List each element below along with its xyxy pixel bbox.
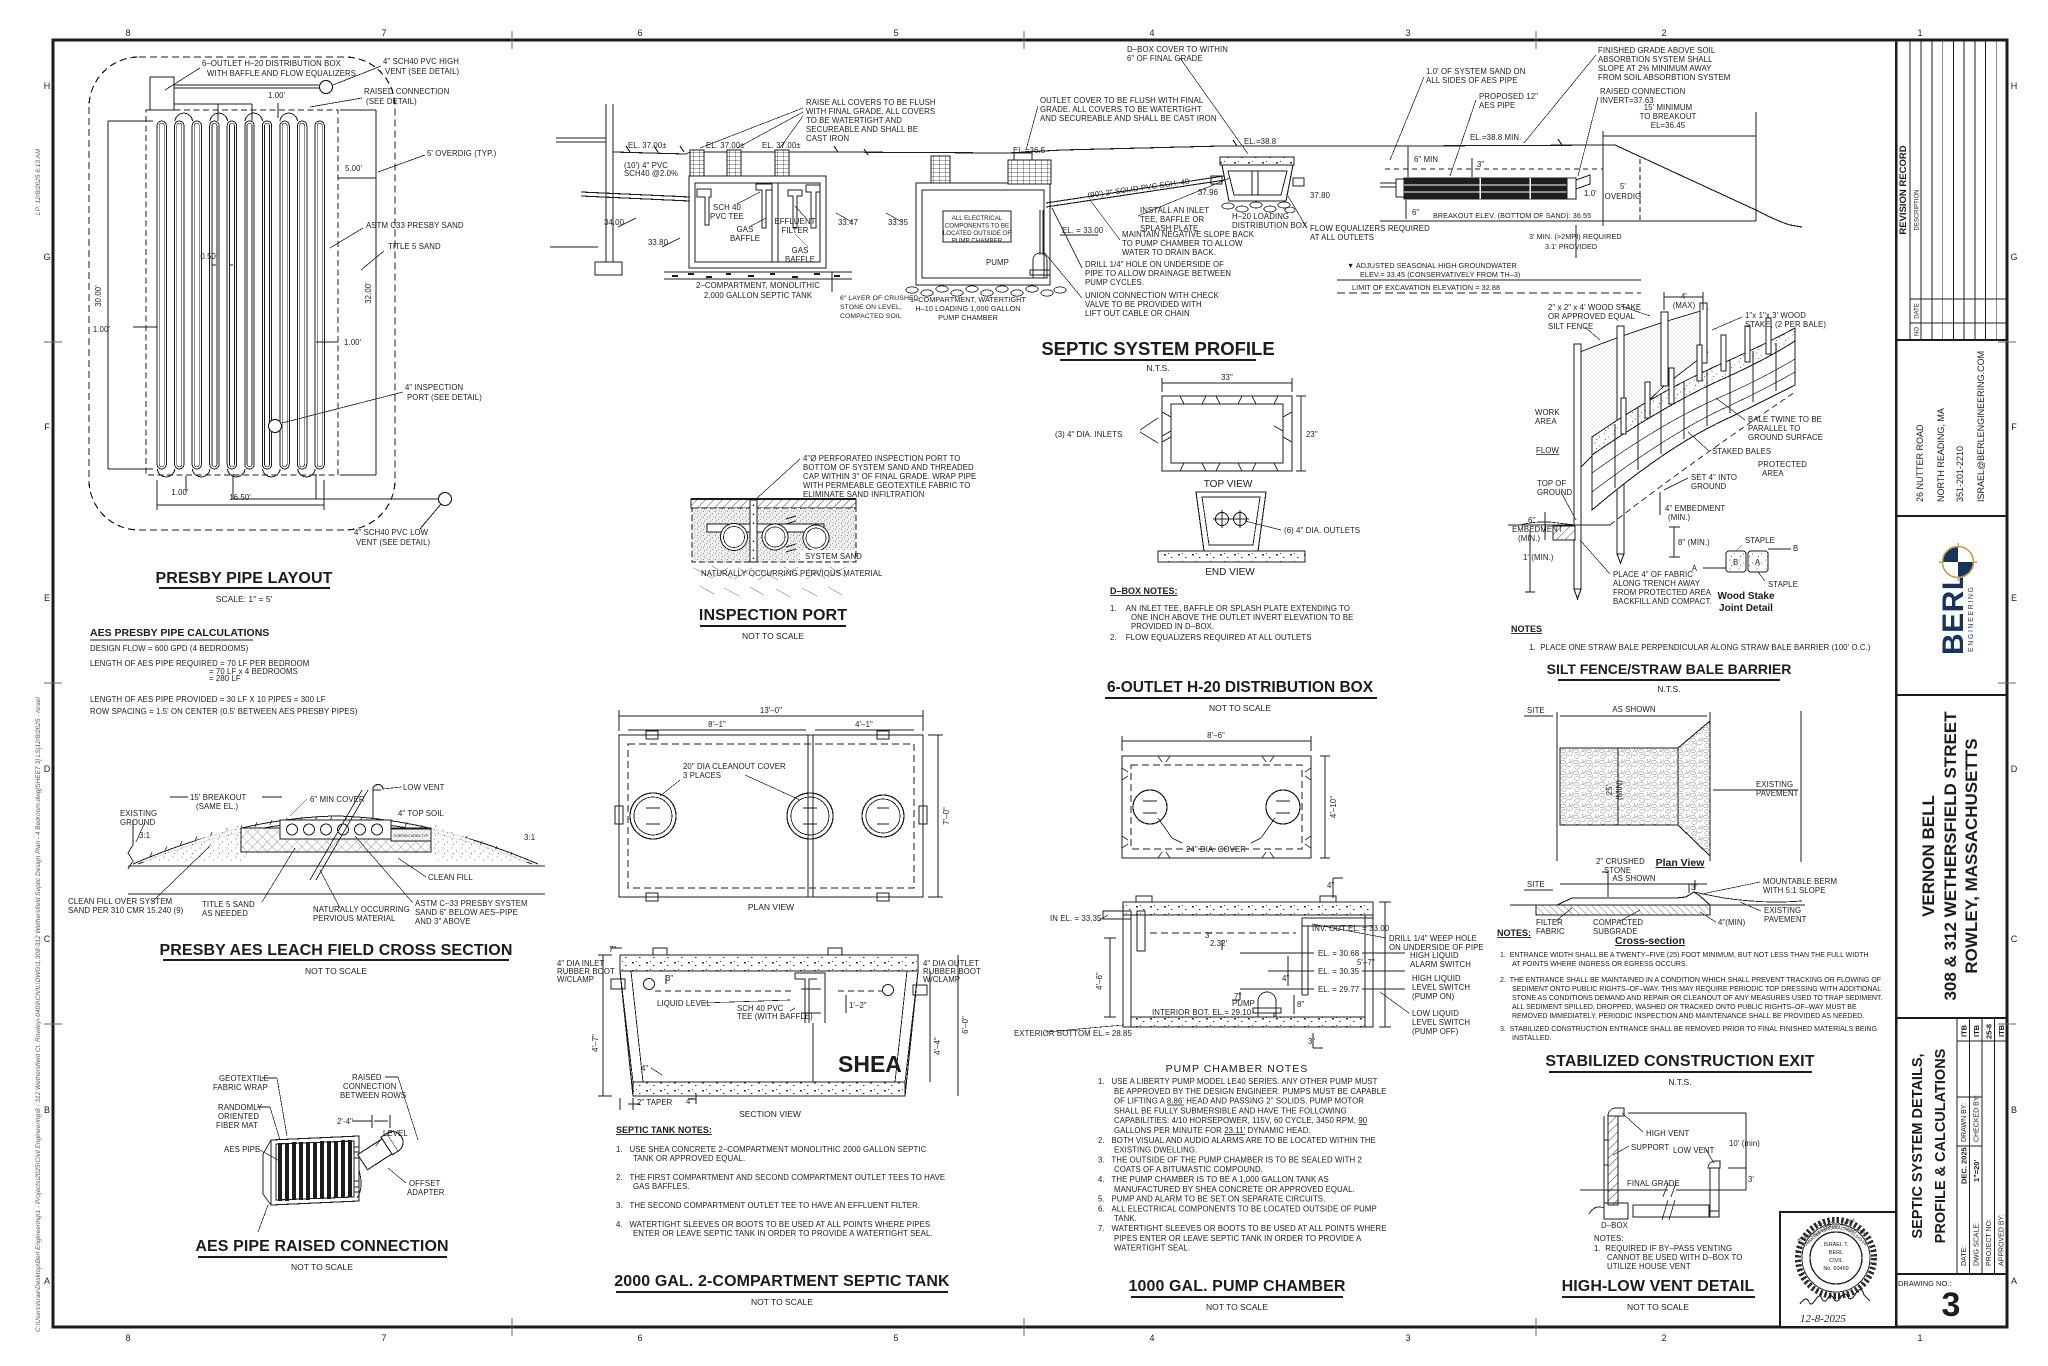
title block: [1896, 40, 2007, 1327]
svg-text:15' BREAKOUT: 15' BREAKOUT: [190, 793, 247, 802]
svg-text:F: F: [44, 422, 50, 432]
distribution box plan (8'-6" x 4'-10"): [1122, 756, 1311, 858]
svg-text:24" DIA. COVER: 24" DIA. COVER: [1186, 845, 1246, 854]
overdig hatched box: [391, 829, 431, 841]
svg-text:IN EL. = 33.35: IN EL. = 33.35: [1050, 914, 1102, 923]
svg-text:33.80: 33.80: [648, 238, 669, 247]
svg-text:EL. = 29.77: EL. = 29.77: [1318, 985, 1359, 994]
svg-text:No. 60469: No. 60469: [1823, 1266, 1848, 1272]
svg-text:4": 4": [686, 1097, 693, 1106]
svg-text:PIPE TO ALLOW DRAINAGE BETWEEN: PIPE TO ALLOW DRAINAGE BETWEEN: [1085, 269, 1231, 278]
svg-text:SEDIMENT ONTO PUBLIC RIGHTS–OF: SEDIMENT ONTO PUBLIC RIGHTS–OF–WAY. THIS…: [1512, 986, 1881, 993]
elbow cap: [1608, 1108, 1624, 1116]
svg-text:PRESBY AES LEACH FIELD CROSS S: PRESBY AES LEACH FIELD CROSS SECTION: [160, 942, 513, 959]
svg-text:5.00': 5.00': [345, 164, 363, 173]
svg-text:1000 GAL. PUMP CHAMBER: 1000 GAL. PUMP CHAMBER: [1128, 1278, 1345, 1295]
svg-text:CHECKED BY:: CHECKED BY:: [1974, 1095, 1981, 1142]
svg-text:SUPPORT: SUPPORT: [1631, 1143, 1669, 1152]
svg-text:SECUREABLE AND SHALL BE: SECUREABLE AND SHALL BE: [806, 125, 918, 134]
svg-text:LP: 12/8/2025 6:13 AM: LP: 12/8/2025 6:13 AM: [35, 148, 42, 215]
svg-text:AES PIPE: AES PIPE: [1479, 101, 1515, 110]
svg-text:STONE: STONE: [1604, 866, 1631, 875]
svg-text:5: 5: [893, 28, 898, 38]
svg-text:E: E: [2011, 593, 2017, 603]
svg-text:STAPLE: STAPLE: [1745, 536, 1775, 545]
svg-text:VERNON BELL: VERNON BELL: [1919, 795, 1938, 917]
svg-text:4"(MIN): 4"(MIN): [1718, 918, 1746, 927]
overdig dashed boundary: [89, 57, 395, 530]
svg-text:5' OVERDIG (TYP.): 5' OVERDIG (TYP.): [427, 149, 497, 158]
svg-text:37.96: 37.96: [1198, 188, 1218, 197]
svg-text:6" OF FINAL GRADE: 6" OF FINAL GRADE: [1127, 54, 1203, 63]
low vent: [1708, 1161, 1720, 1168]
svg-text:SITE: SITE: [1527, 880, 1545, 889]
svg-text:REMOVED IMMEDIATELY. PERI: REMOVED IMMEDIATELY. PERIODIC INSPECTION…: [1512, 1013, 1864, 1020]
svg-text:STAKE, (2 PER BALE): STAKE, (2 PER BALE): [1745, 320, 1826, 329]
svg-text:MANUFACTURED BY SHEA CONCRETE: MANUFACTURED BY SHEA CONCRETE OR APPROVE…: [1114, 1185, 1355, 1194]
outlet tee and effluent filter: [806, 185, 820, 228]
svg-text:D–BOX NOTES:: D–BOX NOTES:: [1110, 586, 1178, 596]
svg-text:C: C: [2011, 934, 2018, 944]
engineer address block: [1915, 351, 1986, 502]
svg-text:W/CLAMP: W/CLAMP: [923, 975, 960, 984]
svg-text:4" SCH40 PVC LOW: 4" SCH40 PVC LOW: [354, 528, 429, 537]
svg-text:FABRIC: FABRIC: [1536, 927, 1565, 936]
SEPTIC SYSTEM PROFILE: [550, 104, 1802, 275]
svg-text:EXISTING: EXISTING: [1756, 780, 1793, 789]
svg-text:AES PRESBY PIPE CALCULATIONS: AES PRESBY PIPE CALCULATIONS: [90, 627, 269, 639]
svg-text:8" (MIN.): 8" (MIN.): [1678, 538, 1710, 547]
svg-text:PUMP CHAMBER: PUMP CHAMBER: [952, 238, 1003, 245]
silt fence dims: [1525, 292, 1703, 592]
svg-text:15' MINIMUM: 15' MINIMUM: [1644, 103, 1693, 112]
svg-text:ENTER OR LEAVE SEPTIC TANK IN: ENTER OR LEAVE SEPTIC TANK IN ORDER TO P…: [633, 1229, 933, 1238]
section view dims/labels: [598, 948, 958, 1110]
svg-text:LOW LIQUID: LOW LIQUID: [1412, 1009, 1459, 1018]
svg-text:VALVE TO BE PROVIDED WITH: VALVE TO BE PROVIDED WITH: [1085, 300, 1202, 309]
svg-text:6: 6: [637, 28, 642, 38]
svg-text:PERVIOUS MATERIAL: PERVIOUS MATERIAL: [313, 914, 396, 923]
svg-text:BALE TWINE TO BE: BALE TWINE TO BE: [1748, 415, 1822, 424]
outlet knockout notches top/bottom: [1180, 396, 1278, 404]
AES pipe bed (profile): [1380, 159, 1756, 221]
svg-text:5: 5: [893, 1333, 898, 1343]
svg-text:ELEV.= 33.45 (CONSERVATIVELY F: ELEV.= 33.45 (CONSERVATIVELY FROM TH–3): [1360, 270, 1520, 279]
svg-text:TEE (WITH BAFFLE): TEE (WITH BAFFLE): [737, 1012, 813, 1021]
svg-text:5'–7": 5'–7": [1357, 958, 1375, 967]
svg-text:PIPES ENTER OR LEAVE SEPTIC TA: PIPES ENTER OR LEAVE SEPTIC TANK IN ORDE…: [1114, 1234, 1362, 1243]
svg-text:PUMP CYCLES.: PUMP CYCLES.: [1085, 278, 1144, 287]
raised connection labels: [213, 1073, 445, 1197]
svg-text:DEC. 2025: DEC. 2025: [1960, 1147, 1969, 1184]
svg-text:NOT TO SCALE: NOT TO SCALE: [305, 966, 367, 976]
surface hatch ticks: [150, 816, 512, 857]
svg-text:FLOW: FLOW: [1536, 446, 1559, 455]
1,000 gallon pump chamber (profile): [906, 153, 1066, 296]
svg-text:3:1: 3:1: [524, 833, 535, 842]
svg-text:CAST IRON: CAST IRON: [806, 134, 849, 143]
svg-text:WATERTIGHT SEAL.: WATERTIGHT SEAL.: [1114, 1244, 1190, 1253]
svg-text:EL. = 30.35: EL. = 30.35: [1318, 967, 1360, 976]
svg-text:3': 3': [1691, 883, 1697, 892]
svg-text:B: B: [1733, 558, 1738, 567]
svg-text:308 & 312 WETHERSFIELD STREET: 308 & 312 WETHERSFIELD STREET: [1941, 711, 1960, 1001]
HIGH-LOW VENT DETAIL: [1580, 1108, 1746, 1220]
svg-text:CAPABILITIES: 4/10 HORSEPOWER,: CAPABILITIES: 4/10 HORSEPOWER, 115V, 60 …: [1114, 1116, 1368, 1125]
svg-text:DESCRIPTION: DESCRIPTION: [1915, 189, 1921, 230]
svg-text:PAVEMENT: PAVEMENT: [1764, 915, 1807, 924]
AES PIPE RAISED CONNECTION: [263, 1128, 407, 1205]
svg-text:4. WATERTIGHT SLEEVES OR BOO: 4. WATERTIGHT SLEEVES OR BOOTS TO BE USE…: [616, 1220, 930, 1229]
wood stake joint detail: [1726, 551, 1768, 572]
svg-text:1–COMPARTMENT, WATERTIGHT: 1–COMPARTMENT, WATERTIGHT: [910, 295, 1026, 304]
svg-text:SYSTEM SAND: SYSTEM SAND: [805, 552, 862, 561]
svg-text:A: A: [2011, 1276, 2017, 1286]
raise covers note: [806, 98, 936, 143]
svg-text:7": 7": [609, 945, 616, 954]
svg-text:(MIN.): (MIN.): [1518, 534, 1541, 543]
svg-text:SHALL BE FULLY SUBMERSIBLE AND: SHALL BE FULLY SUBMERSIBLE AND HAVE THE …: [1114, 1106, 1347, 1115]
system sand dashed boundary: [146, 110, 338, 475]
silt fence fabric mesh: [1580, 309, 1708, 468]
svg-text:16.50': 16.50': [229, 493, 251, 502]
svg-text:6. ALL ELECTRICAL COMPONENTS: 6. ALL ELECTRICAL COMPONENTS TO BE LOCAT…: [1098, 1204, 1377, 1213]
svg-text:3': 3': [1748, 1175, 1754, 1184]
svg-text:H: H: [44, 81, 51, 91]
svg-text:23": 23": [1306, 430, 1318, 439]
svg-text:3. STABILIZED CONSTRUCTION EN: 3. STABILIZED CONSTRUCTION ENTRANCE SHAL…: [1500, 1026, 1877, 1033]
svg-text:FINISHED GRADE ABOVE SOIL: FINISHED GRADE ABOVE SOIL: [1598, 46, 1716, 55]
svg-text:A: A: [1755, 558, 1761, 567]
svg-text:C: C: [44, 934, 51, 944]
liquid line: [1150, 932, 1296, 934]
svg-text:RANDOMLY: RANDOMLY: [218, 1103, 263, 1112]
svg-text:INSPECTION PORT: INSPECTION PORT: [699, 607, 847, 624]
dim to low vent: [1628, 1112, 1746, 1114]
svg-text:1.00': 1.00': [268, 91, 286, 100]
svg-text:AND 3" ABOVE: AND 3" ABOVE: [415, 917, 471, 926]
svg-text:OF LIFTING A 8.86' HEAD AND PA: OF LIFTING A 8.86' HEAD AND PASSING 2" S…: [1114, 1097, 1364, 1106]
sheet data table: [1957, 1018, 2007, 1274]
svg-text:4"Ø PERFORATED INSPECTION PORT: 4"Ø PERFORATED INSPECTION PORT TO: [803, 454, 960, 463]
svg-text:DRILL 1/4" HOLE ON UNDERSIDE O: DRILL 1/4" HOLE ON UNDERSIDE OF: [1085, 260, 1224, 269]
svg-text:EL. = 30.68: EL. = 30.68: [1318, 949, 1359, 958]
svg-text:8: 8: [125, 1333, 130, 1343]
svg-text:PRESBY PIPE LAYOUT: PRESBY PIPE LAYOUT: [156, 570, 333, 587]
stone under chamber: [906, 286, 1066, 296]
svg-text:EL.=38.8: EL.=38.8: [1244, 137, 1276, 146]
svg-text:AT ALL OUTLETS: AT ALL OUTLETS: [1310, 233, 1374, 242]
svg-text:A: A: [44, 1276, 50, 1286]
fence post 4: [1700, 303, 1707, 363]
svg-text:GAS: GAS: [792, 246, 809, 255]
inlet pipe and tee: [1103, 911, 1131, 919]
bale stakes: [1621, 318, 1771, 434]
svg-text:ASTM C33 PRESBY SAND: ASTM C33 PRESBY SAND: [366, 221, 464, 230]
svg-text:OFFSET: OFFSET: [409, 1179, 440, 1188]
high vent riser: [1608, 1116, 1618, 1205]
svg-text:3: 3: [1405, 28, 1410, 38]
svg-text:4: 4: [1149, 1333, 1154, 1343]
svg-text:33.35: 33.35: [888, 218, 909, 227]
svg-text:25': 25': [1605, 784, 1614, 795]
building sewer pipe: [581, 192, 690, 197]
tank shell: [620, 955, 918, 1096]
svg-text:EMBEDMENT: EMBEDMENT: [1512, 525, 1563, 534]
svg-text:3: 3: [1942, 1286, 1961, 1324]
svg-text:(SAME EL.): (SAME EL.): [196, 802, 238, 811]
professional engineer seal: [1796, 1217, 1874, 1296]
svg-text:BERL: BERL: [1829, 1250, 1843, 1256]
layout dimensions: [108, 103, 376, 510]
crushed stone base under tank: [664, 271, 852, 273]
svg-text:CLEAN FILL OVER SYSTEM: CLEAN FILL OVER SYSTEM: [68, 897, 172, 906]
svg-text:FLOW EQUALIZERS REQUIRED: FLOW EQUALIZERS REQUIRED: [1310, 224, 1430, 233]
grade hatch ticks: [626, 139, 1562, 155]
inspection port slash: [310, 790, 362, 880]
BERL Engineering logo: [1937, 543, 1977, 655]
svg-text:2,000 GALLON SEPTIC TANK: 2,000 GALLON SEPTIC TANK: [704, 291, 813, 300]
d-box labels: [1040, 45, 1430, 318]
svg-text:WATER TO DRAIN BACK.: WATER TO DRAIN BACK.: [1122, 248, 1216, 257]
svg-text:SEPTIC SYSTEM DETAILS,: SEPTIC SYSTEM DETAILS,: [1910, 1053, 1926, 1238]
svg-text:30.00': 30.00': [94, 285, 103, 307]
svg-text:Wood Stake: Wood Stake: [1717, 591, 1774, 602]
svg-text:CIVIL: CIVIL: [1829, 1258, 1843, 1264]
svg-text:HIGH VENT: HIGH VENT: [1646, 1129, 1689, 1138]
svg-text:ITB: ITB: [1997, 1024, 2006, 1037]
svg-text:END VIEW: END VIEW: [1205, 567, 1255, 578]
svg-text:WITH 5:1 SLOPE: WITH 5:1 SLOPE: [1763, 886, 1826, 895]
INSPECTION PORT detail: [691, 499, 856, 597]
svg-text:6" LAYER OF CRUSHED: 6" LAYER OF CRUSHED: [840, 295, 919, 302]
svg-text:BETWEEN ROWS: BETWEEN ROWS: [340, 1091, 406, 1100]
svg-text:LOW VENT: LOW VENT: [403, 783, 445, 792]
inlet boot: [611, 979, 625, 989]
svg-text:EXISTING: EXISTING: [120, 809, 157, 818]
svg-text:SAND 6" BELOW AES–PIPE: SAND 6" BELOW AES–PIPE: [415, 908, 518, 917]
ground baseline: [128, 865, 545, 867]
D-box (profile): [1211, 157, 1304, 213]
svg-text:OR APPROVED EQUAL: OR APPROVED EQUAL: [1548, 312, 1636, 321]
1000 GAL PUMP CHAMBER - SECTION: [1103, 896, 1405, 1027]
svg-text:INTERIOR BOT. EL.= 29.10: INTERIOR BOT. EL.= 29.10: [1152, 1008, 1252, 1017]
geotextile tick marks: [786, 516, 796, 552]
svg-text:0.50': 0.50': [200, 252, 218, 261]
svg-text:TITLE 5 SAND: TITLE 5 SAND: [202, 900, 255, 909]
svg-text:TO BREAKOUT: TO BREAKOUT: [1640, 112, 1697, 121]
svg-text:EL=36.45: EL=36.45: [1651, 121, 1686, 130]
engineer signature: [1800, 1289, 1870, 1304]
svg-text:PVC TEE: PVC TEE: [710, 212, 744, 221]
pressure line to d-box: [1046, 176, 1225, 207]
svg-text:PUMP CHAMBER NOTES: PUMP CHAMBER NOTES: [1166, 1063, 1309, 1075]
svg-text:EL.=36.5: EL.=36.5: [1013, 146, 1046, 155]
svg-text:3": 3": [666, 974, 673, 983]
svg-text:H–10 LOADING 1,000 GALLON: H–10 LOADING 1,000 GALLON: [915, 304, 1020, 313]
svg-text:C:\Users\israe\Desktop\Berl En: C:\Users\israe\Desktop\Berl Engineering\…: [35, 697, 42, 1332]
svg-text:TANK OR APPROVED EQUAL.: TANK OR APPROVED EQUAL.: [633, 1154, 745, 1163]
svg-text:G: G: [2010, 252, 2017, 262]
revision record table: [1910, 40, 2007, 340]
svg-text:SEPTIC SYSTEM PROFILE: SEPTIC SYSTEM PROFILE: [1041, 338, 1274, 359]
svg-text:MAINTAIN NEGATIVE SLOPE BACK: MAINTAIN NEGATIVE SLOPE BACK: [1122, 230, 1255, 239]
svg-text:CONNECTION: CONNECTION: [343, 1082, 396, 1091]
svg-text:7: 7: [381, 1333, 386, 1343]
svg-text:3": 3": [1477, 160, 1484, 169]
svg-text:TANK.: TANK.: [1114, 1214, 1137, 1223]
clean fill stipple areas: [140, 824, 250, 862]
svg-text:PORT (SEE DETAIL): PORT (SEE DETAIL): [407, 393, 482, 402]
svg-text:Joint Detail: Joint Detail: [1719, 603, 1773, 614]
svg-text:GROUND SURFACE: GROUND SURFACE: [1748, 433, 1823, 442]
svg-text:APPROVED BY:: APPROVED BY:: [1999, 1214, 2006, 1266]
svg-text:(MIN.): (MIN.): [1668, 513, 1691, 522]
svg-text:4'–1": 4'–1": [855, 720, 873, 729]
svg-text:MOUNTABLE BERM: MOUNTABLE BERM: [1763, 877, 1837, 886]
svg-text:COMPONENTS TO BE: COMPONENTS TO BE: [945, 223, 1009, 230]
svg-text:ELIMINATE SAND INFILTRATION: ELIMINATE SAND INFILTRATION: [803, 490, 924, 499]
svg-text:ISRAEL@BERLENGINEERING.COM: ISRAEL@BERLENGINEERING.COM: [1976, 351, 1986, 502]
svg-text:EL. 37.00±: EL. 37.00±: [762, 141, 801, 150]
svg-text:ASTM C–33 PRESBY SYSTEM: ASTM C–33 PRESBY SYSTEM: [415, 899, 528, 908]
low vent run: [232, 474, 234, 499]
straw bale chain: [1592, 341, 1795, 510]
svg-text:SITE: SITE: [1527, 706, 1545, 715]
finished grade line: [613, 145, 1615, 154]
svg-text:1.00': 1.00': [171, 488, 189, 497]
svg-text:ALL ELECTRICAL: ALL ELECTRICAL: [952, 215, 1003, 222]
AES bed dims and labels: [1412, 133, 1641, 251]
svg-text:PROJECT NO:: PROJECT NO:: [1986, 1219, 1993, 1266]
svg-text:6" MIN: 6" MIN: [1414, 155, 1438, 164]
svg-text:N.T.S.: N.T.S.: [1668, 1077, 1691, 1087]
svg-text:COMPACTED SOIL: COMPACTED SOIL: [840, 313, 902, 320]
svg-text:4': 4': [1681, 292, 1687, 301]
lateral pipe: [707, 524, 824, 532]
svg-text:CANNOT BE USED WITH D–BOX TO: CANNOT BE USED WITH D–BOX TO: [1607, 1253, 1742, 1262]
svg-text:(SEE DETAIL): (SEE DETAIL): [366, 97, 417, 106]
svg-text:TO BE WATERTIGHT AND: TO BE WATERTIGHT AND: [806, 116, 902, 125]
svg-text:2'-4": 2'-4": [337, 1117, 353, 1126]
inspection port riser: [750, 500, 757, 562]
svg-text:(MAX): (MAX): [1673, 301, 1696, 310]
svg-text:GROUND: GROUND: [1691, 482, 1727, 491]
svg-text:B: B: [44, 1105, 50, 1115]
svg-text:4" TOP SOIL: 4" TOP SOIL: [398, 809, 444, 818]
svg-text:351-201-2210: 351-201-2210: [1955, 446, 1965, 502]
crenellated edge near adapter: [354, 1141, 359, 1197]
svg-text:3: 3: [1405, 1333, 1410, 1343]
svg-text:6": 6": [1412, 208, 1419, 217]
svg-text:SHEA: SHEA: [838, 1051, 902, 1077]
svg-text:Plan View: Plan View: [1656, 857, 1706, 869]
lateral pipe: [1633, 1205, 1709, 1217]
svg-text:EFFLUENT: EFFLUENT: [774, 217, 815, 226]
svg-text:VENT (SEE DETAIL): VENT (SEE DETAIL): [385, 67, 460, 76]
svg-text:5. PUMP AND ALARM TO BE SET: 5. PUMP AND ALARM TO BE SET ON SEPARATE …: [1098, 1195, 1325, 1204]
svg-text:ORIENTED: ORIENTED: [218, 1112, 259, 1121]
svg-text:1.0': 1.0': [1584, 189, 1597, 198]
svg-text:PUMP: PUMP: [1232, 999, 1255, 1008]
svg-text:N.T.S.: N.T.S.: [1146, 363, 1169, 373]
svg-text:1: 1: [1917, 1333, 1922, 1343]
svg-text:AS NEEDED: AS NEEDED: [202, 909, 248, 918]
pump chamber labels: [1014, 881, 1484, 1046]
svg-text:PLACE 4" OF FABRIC: PLACE 4" OF FABRIC: [1613, 570, 1693, 579]
sheet title block: [1910, 1048, 1949, 1243]
svg-text:1.00': 1.00': [344, 338, 362, 347]
svg-text:NO: NO: [1915, 327, 1921, 336]
plan view dimensions: [619, 710, 943, 897]
low vent riser: [373, 784, 383, 819]
svg-text:ROWLEY, MASSACHUSETTS: ROWLEY, MASSACHUSETTS: [1962, 738, 1981, 973]
svg-text:ABSORBTION SYSTEM SHALL: ABSORBTION SYSTEM SHALL: [1598, 55, 1713, 64]
svg-text:GAS: GAS: [737, 225, 754, 234]
right side notes: [1426, 46, 1730, 130]
svg-text:SILT FENCE/STRAW BALE BARRIER: SILT FENCE/STRAW BALE BARRIER: [1547, 661, 1792, 677]
svg-text:D: D: [44, 764, 51, 774]
svg-text:ADAPTER: ADAPTER: [407, 1188, 445, 1197]
svg-text:8'–6": 8'–6": [1207, 731, 1225, 740]
mound surface: [133, 816, 538, 864]
svg-text:TITLE 5 SAND: TITLE 5 SAND: [388, 242, 441, 251]
svg-text:1. PLACE ONE STRAW BALE PERPE: 1. PLACE ONE STRAW BALE PERPENDICULAR AL…: [1529, 643, 1871, 652]
svg-text:BAFFLE: BAFFLE: [785, 255, 815, 264]
svg-text:7: 7: [381, 28, 386, 38]
svg-text:ALL SEDIMENT SPILLED, DROPPED,: ALL SEDIMENT SPILLED, DROPPED, WASHED OR…: [1512, 1004, 1857, 1011]
svg-text:ITB: ITB: [1960, 1024, 1969, 1037]
svg-text:HIGH LIQUID: HIGH LIQUID: [1412, 974, 1461, 983]
svg-text:2: 2: [1661, 1333, 1666, 1343]
svg-text:DESIGN FLOW = 600 GPD (4 BEDRO: DESIGN FLOW = 600 GPD (4 BEDROOMS): [90, 644, 249, 653]
svg-text:FROM SOIL ABSORBTION SYSTEM: FROM SOIL ABSORBTION SYSTEM: [1598, 73, 1730, 82]
svg-text:STABILIZED CONSTRUCTION EXIT: STABILIZED CONSTRUCTION EXIT: [1545, 1053, 1814, 1070]
svg-text:AES PIPE: AES PIPE: [224, 1145, 260, 1154]
pump: [1258, 992, 1276, 1017]
svg-text:1: 1: [1917, 28, 1922, 38]
manifold piping: [174, 84, 319, 86]
STABILIZED CONSTRUCTION EXIT - PLAN VIEW: [1557, 711, 1801, 862]
svg-text:SCALE: 1" = 5': SCALE: 1" = 5': [216, 594, 273, 604]
system sand bed: [241, 828, 431, 852]
svg-text:RAISED CONNECTION: RAISED CONNECTION: [1600, 87, 1685, 96]
svg-text:6": 6": [1528, 516, 1535, 525]
svg-text:13'–0": 13'–0": [760, 706, 782, 715]
svg-text:2–COMPARTMENT, MONOLITHIC: 2–COMPARTMENT, MONOLITHIC: [696, 281, 820, 290]
6-OUTLET H-20 DISTRIBUTION BOX - TOP VIEW: [1162, 396, 1292, 471]
svg-text:1"=20': 1"=20': [1972, 1160, 1981, 1182]
svg-text:EL. 37.00±: EL. 37.00±: [706, 141, 745, 150]
svg-text:5': 5': [1620, 182, 1626, 191]
svg-text:LIMIT OF EXCAVATION ELEVATION: LIMIT OF EXCAVATION ELEVATION = 32.88: [1352, 283, 1500, 292]
silt fence labels: [1512, 292, 1826, 606]
svg-text:1. USE A LIBERTY PUMP MODEL: 1. USE A LIBERTY PUMP MODEL LE40 SERIES.…: [1098, 1077, 1378, 1086]
svg-text:SECTION VIEW: SECTION VIEW: [739, 1109, 801, 1119]
svg-text:AREA: AREA: [1535, 417, 1557, 426]
svg-text:NOTES:: NOTES:: [1497, 928, 1531, 938]
svg-text:(PUMP OFF): (PUMP OFF): [1412, 1027, 1459, 1036]
ground line and trench: [1508, 524, 1610, 526]
svg-text:B: B: [1793, 544, 1798, 553]
svg-text:BOTTOM OF SYSTEM SAND AND THRE: BOTTOM OF SYSTEM SAND AND THREADED: [803, 463, 974, 472]
svg-text:1.00': 1.00': [93, 325, 111, 334]
svg-text:20" DIA CLEANOUT COVER: 20" DIA CLEANOUT COVER: [683, 762, 786, 771]
svg-text:26 NUTTER ROAD: 26 NUTTER ROAD: [1915, 424, 1925, 502]
svg-text:ENGINEERING: ENGINEERING: [1968, 585, 1975, 652]
svg-text:FIBER MAT: FIBER MAT: [216, 1121, 258, 1130]
svg-text:FINAL GRADE: FINAL GRADE: [1627, 1179, 1680, 1188]
